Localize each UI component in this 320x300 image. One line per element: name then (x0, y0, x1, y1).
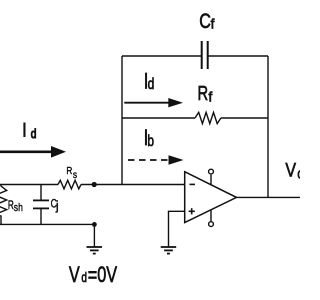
resistor Rf zigzag (195, 112, 221, 123)
op-amp bottom power pin circle (209, 222, 214, 227)
ground under photodiode (87, 247, 103, 254)
svg-text:C: C (199, 10, 211, 34)
junction dot at Rs right (92, 182, 97, 187)
wire non-inverting input (169, 211, 185, 247)
capacitor Cj bottom lead (40, 208, 42, 224)
label Id (photocurrent) (23, 119, 37, 141)
op-amp minus sign (190, 183, 196, 185)
svg-text:d: d (81, 269, 87, 285)
arrow Id photocurrent (left, thick) (0, 146, 66, 158)
svg-text:V: V (285, 159, 296, 181)
wire Rf right segment (221, 117, 268, 119)
op-amp top power pin stem (210, 175, 212, 185)
svg-text:=0V: =0V (88, 262, 118, 287)
svg-text:f: f (211, 17, 215, 32)
capacitor Cj plates (33, 200, 49, 208)
svg-text:b: b (147, 131, 154, 149)
capacitor Cf plates (202, 41, 208, 69)
svg-text:I: I (23, 119, 27, 141)
wire feedback left vertical (121, 56, 123, 185)
svg-text:R: R (8, 200, 14, 213)
arrow Ib bias (dashed) (128, 155, 184, 165)
svg-text:f: f (208, 88, 212, 104)
wire Rf left segment (122, 117, 195, 119)
svg-text:j: j (55, 199, 59, 213)
label Rs (8, 165, 77, 214)
resistor Rsh vertical zigzag (0, 185, 7, 225)
wire photodiode bottom (0, 223, 94, 225)
op-amp plus sign (189, 208, 195, 214)
svg-text:R: R (198, 82, 209, 105)
ground under op-amp + input (161, 247, 177, 254)
arrow Id feedback (124, 98, 183, 107)
svg-text:V: V (69, 262, 81, 287)
capacitor Cj top lead (40, 185, 42, 201)
svg-text:d: d (31, 127, 37, 141)
wire top feedback left segment (122, 55, 202, 57)
wire Rs to op-amp inverting input (81, 184, 185, 186)
wire photodiode top (0, 184, 58, 186)
label Cf (69, 10, 304, 288)
op-amp top power pin circle (209, 169, 214, 174)
svg-text:R: R (66, 165, 72, 176)
junction dot at bottom wire (92, 222, 97, 227)
wire bottom to ground (93, 224, 95, 247)
wire feedback right vertical (267, 56, 269, 197)
svg-text:o: o (297, 165, 300, 181)
svg-text:sh: sh (14, 202, 23, 214)
wire output (237, 196, 301, 198)
wire top feedback right segment (208, 55, 268, 57)
svg-text:d: d (148, 75, 155, 93)
op-amp bottom power pin stem (210, 210, 212, 222)
svg-text:s: s (73, 169, 77, 181)
op-amp U1 triangle (185, 172, 237, 223)
resistor Rs zigzag (58, 180, 81, 189)
